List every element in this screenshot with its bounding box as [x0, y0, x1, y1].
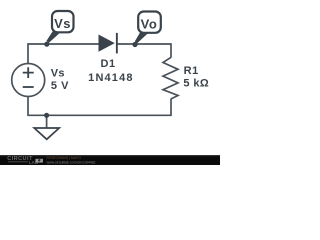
probe Vs box	[52, 11, 74, 32]
watermark text lines	[47, 155, 96, 165]
watermark bar	[0, 155, 220, 165]
diode D1 cathode bar	[116, 33, 118, 54]
svg-text:Vs: Vs	[54, 16, 71, 31]
wire right vertical upper	[170, 43, 172, 57]
node dot Vo probe	[132, 42, 137, 47]
voltage source V1 circle	[12, 64, 45, 97]
node dot ground junction	[44, 113, 49, 118]
watermark CircuitLab logo	[7, 156, 43, 165]
svg-text:5 V: 5 V	[51, 80, 69, 92]
probe Vo box	[138, 12, 161, 33]
svg-text:1N4148: 1N4148	[88, 72, 133, 84]
wire top from left corner to diode anode	[28, 43, 99, 45]
wire right vertical lower	[170, 99, 172, 116]
ground symbol	[34, 128, 59, 139]
diode D1 triangle (anode)	[99, 35, 115, 52]
wire bottom	[28, 114, 171, 116]
wire left vertical upper	[27, 43, 29, 64]
wire ground stem	[46, 115, 48, 128]
svg-text:D1: D1	[101, 58, 116, 70]
wire top from diode cathode to right corner	[117, 43, 171, 45]
svg-text:R1: R1	[184, 65, 199, 77]
probe Vo tail	[135, 31, 148, 44]
voltage source plus sign	[23, 67, 34, 78]
svg-text:5 kΩ: 5 kΩ	[183, 78, 209, 90]
svg-text:Vo: Vo	[141, 16, 158, 31]
svg-text:www.circuitlab.com/circ/z6448z: www.circuitlab.com/circ/z6448z	[47, 159, 96, 164]
wire left vertical lower	[27, 96, 29, 116]
svg-text:Vs: Vs	[51, 67, 65, 79]
probe Vs tail	[46, 30, 60, 43]
resistor R1 zigzag	[163, 57, 178, 99]
voltage source minus sign	[23, 86, 34, 88]
node dot Vs probe	[44, 42, 49, 47]
